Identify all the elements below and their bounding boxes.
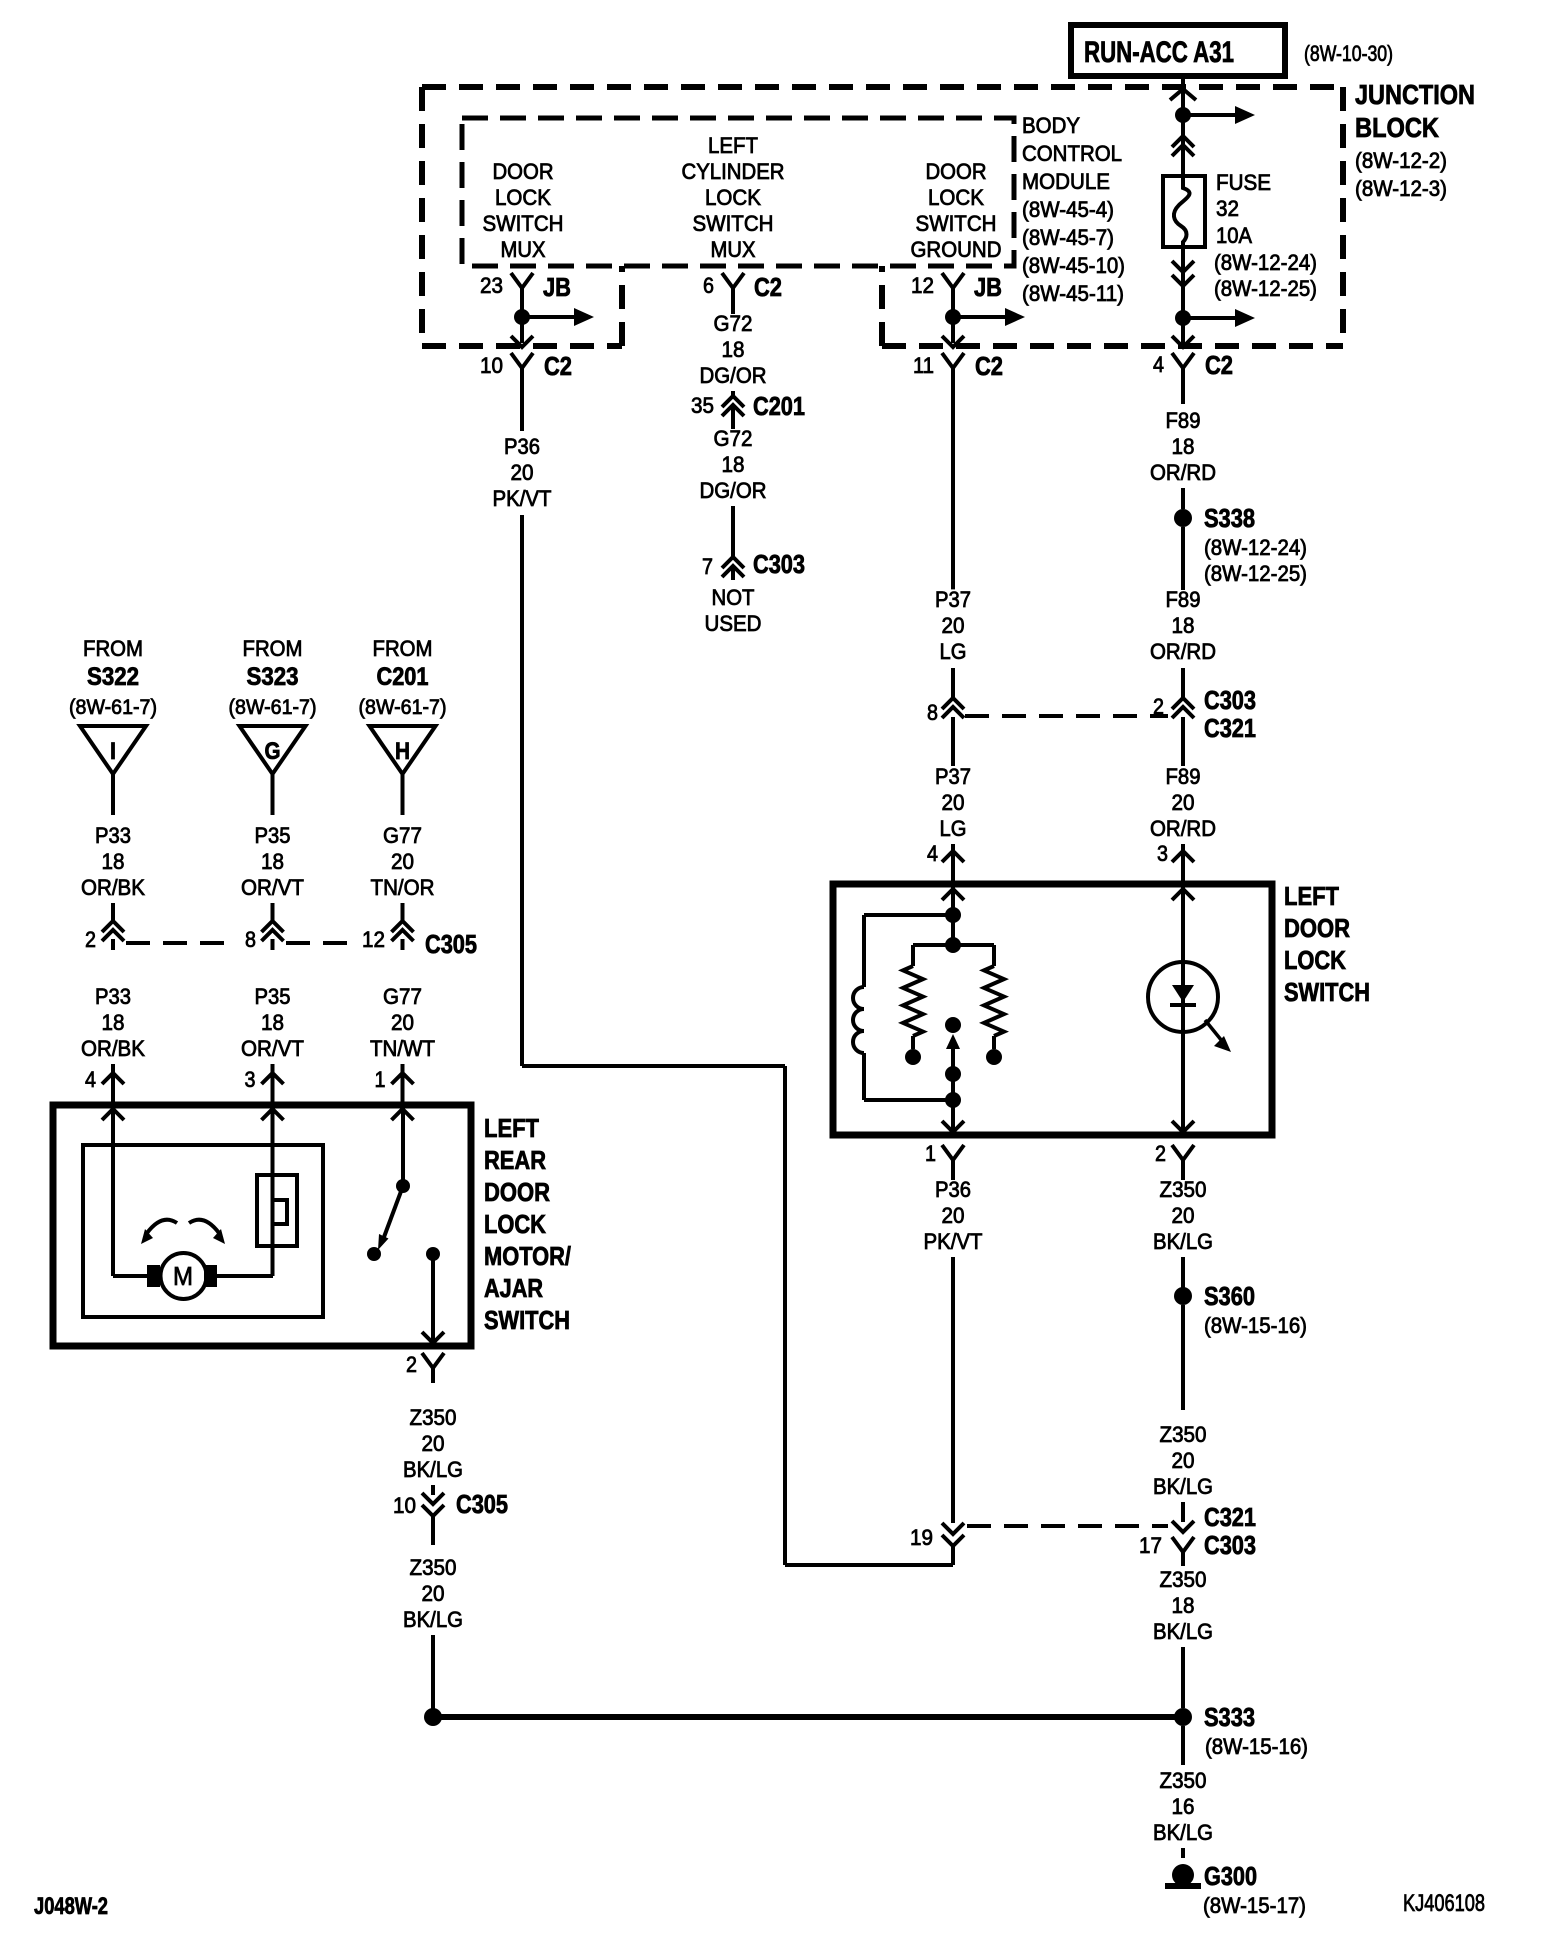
svg-text:DOOR: DOOR [926,159,987,184]
svg-text:BK/LG: BK/LG [1153,1619,1213,1644]
svg-text:P35: P35 [255,984,291,1009]
svg-text:18: 18 [102,849,125,874]
svg-text:(8W-12-25): (8W-12-25) [1214,276,1317,301]
svg-text:(8W-45-4): (8W-45-4) [1022,197,1114,222]
svg-text:20: 20 [422,1581,445,1606]
svg-text:4: 4 [927,841,938,866]
svg-text:DOOR: DOOR [493,159,554,184]
svg-text:LEFT: LEFT [484,1113,539,1143]
svg-text:JB: JB [974,272,1002,302]
svg-text:TN/WT: TN/WT [370,1036,435,1061]
svg-text:MUX: MUX [501,237,546,262]
svg-text:18: 18 [722,452,745,477]
svg-text:P33: P33 [95,823,131,848]
svg-text:12: 12 [362,927,385,952]
svg-text:3: 3 [245,1067,256,1092]
svg-text:8: 8 [927,700,938,725]
svg-text:C201: C201 [377,663,429,691]
svg-text:LOCK: LOCK [1284,945,1346,975]
svg-text:PK/VT: PK/VT [493,486,552,511]
svg-text:BK/LG: BK/LG [1153,1229,1213,1254]
svg-text:MOTOR/: MOTOR/ [484,1241,571,1271]
svg-text:20: 20 [942,790,965,815]
svg-text:18: 18 [1172,434,1195,459]
svg-text:C305: C305 [425,929,477,959]
svg-text:32: 32 [1216,196,1239,221]
svg-text:OR/VT: OR/VT [241,1036,304,1061]
svg-text:LOCK: LOCK [495,185,551,210]
svg-text:F89: F89 [1166,408,1201,433]
svg-text:P36: P36 [935,1177,971,1202]
svg-text:S333: S333 [1204,1702,1255,1732]
svg-text:(8W-61-7): (8W-61-7) [229,696,317,719]
svg-text:12: 12 [911,273,934,298]
svg-text:KJ406108: KJ406108 [1403,1890,1485,1917]
svg-text:C2: C2 [544,351,572,381]
svg-text:C201: C201 [753,391,805,421]
svg-text:REAR: REAR [484,1145,546,1175]
svg-text:BODY: BODY [1022,113,1080,138]
svg-text:G300: G300 [1204,1861,1257,1891]
svg-text:BK/LG: BK/LG [403,1457,463,1482]
svg-text:18: 18 [1172,1593,1195,1618]
svg-text:LEFT: LEFT [708,133,758,158]
svg-text:P33: P33 [95,984,131,1009]
svg-text:DG/OR: DG/OR [700,478,767,503]
svg-text:(8W-45-7): (8W-45-7) [1022,225,1114,250]
svg-text:19: 19 [910,1525,933,1550]
svg-text:1: 1 [375,1067,386,1092]
svg-text:P35: P35 [255,823,291,848]
svg-text:Z350: Z350 [410,1555,457,1580]
svg-text:DG/OR: DG/OR [700,363,767,388]
svg-text:P37: P37 [935,587,971,612]
svg-text:S360: S360 [1204,1281,1255,1311]
svg-text:DOOR: DOOR [1284,913,1350,943]
svg-text:DOOR: DOOR [484,1177,550,1207]
svg-text:Z350: Z350 [1160,1422,1207,1447]
svg-text:C321: C321 [1204,1502,1256,1532]
svg-text:LOCK: LOCK [928,185,984,210]
svg-text:7: 7 [702,554,713,579]
svg-text:(8W-12-24): (8W-12-24) [1204,535,1307,560]
svg-text:SWITCH: SWITCH [916,211,997,236]
svg-text:8: 8 [245,927,256,952]
svg-text:C321: C321 [1204,713,1256,743]
svg-text:C2: C2 [975,351,1003,381]
svg-text:OR/RD: OR/RD [1150,816,1216,841]
svg-text:2: 2 [85,927,96,952]
svg-text:23: 23 [480,273,503,298]
svg-text:G77: G77 [383,984,422,1009]
svg-text:CYLINDER: CYLINDER [682,159,785,184]
svg-text:LG: LG [940,639,967,664]
svg-text:M: M [173,1261,193,1291]
svg-text:(8W-45-10): (8W-45-10) [1022,253,1125,278]
svg-text:C303: C303 [1204,1530,1256,1560]
svg-text:(8W-15-16): (8W-15-16) [1205,1734,1308,1759]
svg-text:20: 20 [942,1203,965,1228]
svg-text:Z350: Z350 [1160,1768,1207,1793]
svg-text:LOCK: LOCK [484,1209,546,1239]
svg-text:P37: P37 [935,764,971,789]
svg-text:FUSE: FUSE [1216,170,1271,195]
svg-text:FROM: FROM [83,636,143,661]
svg-text:BLOCK: BLOCK [1355,112,1439,143]
svg-text:2: 2 [1155,1141,1166,1166]
svg-text:18: 18 [722,337,745,362]
svg-text:35: 35 [691,393,714,418]
svg-text:FROM: FROM [243,636,303,661]
svg-text:18: 18 [1172,613,1195,638]
svg-text:F89: F89 [1166,764,1201,789]
svg-text:C305: C305 [456,1489,508,1519]
svg-text:S323: S323 [247,663,299,691]
svg-text:1: 1 [925,1141,936,1166]
svg-text:3: 3 [1157,841,1168,866]
svg-text:4: 4 [85,1067,96,1092]
svg-text:PK/VT: PK/VT [924,1229,983,1254]
svg-text:FROM: FROM [373,636,433,661]
svg-text:J048W-2: J048W-2 [34,1893,108,1920]
svg-text:10A: 10A [1216,223,1252,248]
svg-text:NOT: NOT [712,585,755,610]
svg-text:G: G [265,738,281,765]
svg-text:F89: F89 [1166,587,1201,612]
svg-text:GROUND: GROUND [911,237,1002,262]
svg-text:JUNCTION: JUNCTION [1355,79,1475,110]
svg-text:SWITCH: SWITCH [1284,977,1370,1007]
svg-text:20: 20 [942,613,965,638]
svg-text:BK/LG: BK/LG [1153,1820,1213,1845]
svg-text:20: 20 [1172,1448,1195,1473]
svg-text:11: 11 [913,353,934,378]
svg-text:(8W-10-30): (8W-10-30) [1304,41,1393,66]
svg-text:P36: P36 [504,434,540,459]
svg-text:LG: LG [940,816,967,841]
svg-text:OR/BK: OR/BK [81,1036,145,1061]
svg-text:S338: S338 [1204,503,1255,533]
svg-text:16: 16 [1172,1794,1195,1819]
svg-text:(8W-61-7): (8W-61-7) [359,696,447,719]
svg-text:20: 20 [391,849,414,874]
svg-text:OR/RD: OR/RD [1150,639,1216,664]
svg-text:(8W-15-17): (8W-15-17) [1203,1893,1306,1918]
svg-text:18: 18 [102,1010,125,1035]
svg-text:Z350: Z350 [1160,1567,1207,1592]
svg-text:BK/LG: BK/LG [1153,1474,1213,1499]
svg-text:C303: C303 [753,549,805,579]
svg-text:(8W-12-2): (8W-12-2) [1355,148,1447,173]
svg-text:JB: JB [543,272,571,302]
svg-text:(8W-61-7): (8W-61-7) [69,696,157,719]
svg-text:4: 4 [1153,352,1164,377]
svg-text:20: 20 [511,460,534,485]
svg-text:(8W-45-11): (8W-45-11) [1022,281,1124,306]
svg-text:10: 10 [480,353,503,378]
svg-text:MODULE: MODULE [1022,169,1110,194]
svg-text:6: 6 [703,273,714,298]
svg-text:BK/LG: BK/LG [403,1607,463,1632]
svg-text:(8W-12-24): (8W-12-24) [1214,250,1317,275]
svg-text:17: 17 [1139,1533,1162,1558]
svg-text:AJAR: AJAR [484,1273,543,1303]
svg-text:18: 18 [261,849,284,874]
svg-text:SWITCH: SWITCH [693,211,774,236]
svg-text:USED: USED [705,611,762,636]
svg-text:(8W-12-25): (8W-12-25) [1204,561,1307,586]
svg-text:C303: C303 [1204,685,1256,715]
svg-text:C2: C2 [754,272,782,302]
svg-text:S322: S322 [87,663,139,691]
svg-text:OR/VT: OR/VT [241,875,304,900]
svg-text:18: 18 [261,1010,284,1035]
svg-text:20: 20 [1172,790,1195,815]
svg-text:MUX: MUX [711,237,756,262]
svg-text:G72: G72 [714,426,753,451]
svg-text:I: I [110,738,116,765]
svg-text:(8W-12-3): (8W-12-3) [1355,176,1447,201]
svg-text:LOCK: LOCK [705,185,761,210]
svg-text:20: 20 [391,1010,414,1035]
svg-text:SWITCH: SWITCH [484,1305,570,1335]
svg-text:CONTROL: CONTROL [1022,141,1122,166]
svg-text:SWITCH: SWITCH [483,211,564,236]
svg-text:LEFT: LEFT [1284,881,1339,911]
svg-text:G72: G72 [714,311,753,336]
svg-text:(8W-15-16): (8W-15-16) [1204,1313,1307,1338]
svg-text:2: 2 [406,1352,417,1377]
svg-text:C2: C2 [1205,350,1233,380]
svg-text:20: 20 [422,1431,445,1456]
svg-text:G77: G77 [383,823,422,848]
svg-text:H: H [395,738,410,765]
svg-text:OR/RD: OR/RD [1150,460,1216,485]
svg-text:10: 10 [393,1493,416,1518]
svg-text:20: 20 [1172,1203,1195,1228]
svg-text:Z350: Z350 [410,1405,457,1430]
svg-text:OR/BK: OR/BK [81,875,145,900]
svg-text:RUN-ACC A31: RUN-ACC A31 [1084,36,1234,69]
svg-text:Z350: Z350 [1160,1177,1207,1202]
svg-text:TN/OR: TN/OR [371,875,435,900]
